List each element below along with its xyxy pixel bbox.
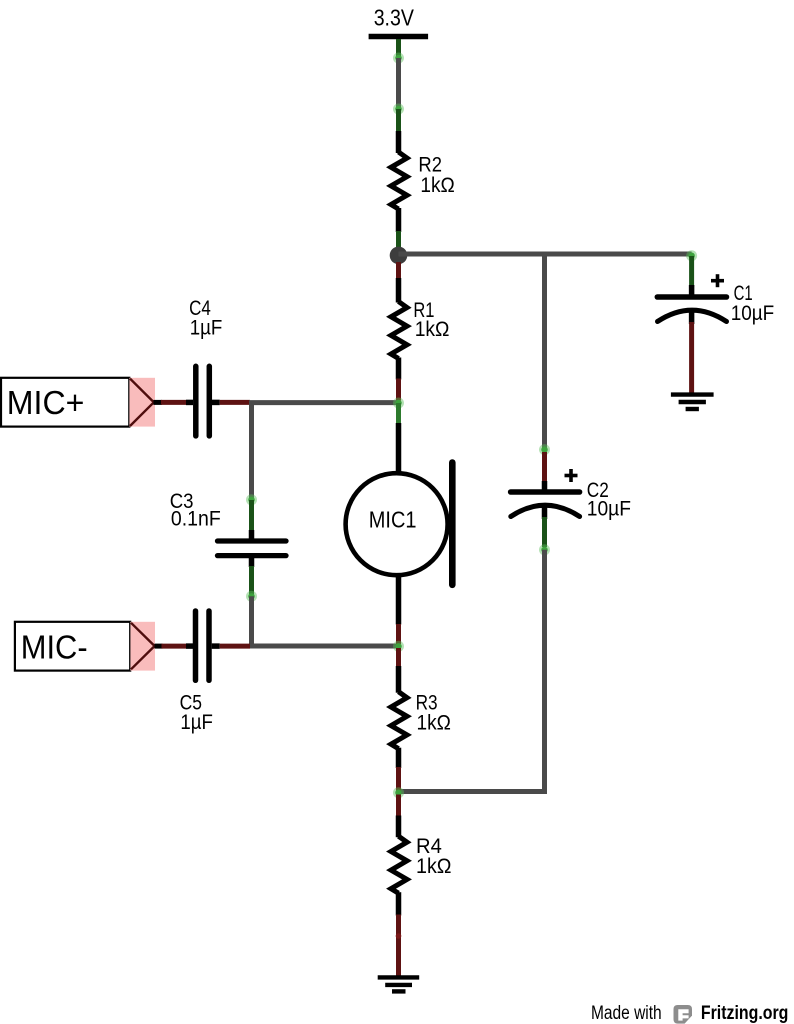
- ground symbol below R4: [378, 977, 420, 991]
- wire (gray) C3 bottom to MIC- corner: [249, 596, 254, 646]
- svg-text:1kΩ: 1kΩ: [420, 174, 454, 197]
- node dot (green) at C3 bottom: [246, 591, 257, 602]
- node dot (green) at C2 bottom: [539, 544, 550, 555]
- capacitor C1 10uF: [657, 274, 774, 325]
- wire (gray) MIC- corner to R3 top: [249, 644, 399, 649]
- capacitor C2 10uF: [511, 469, 631, 520]
- wire MIC+ to C4 (dark red): [161, 400, 186, 405]
- node dot (green) at R3 top junction: [393, 641, 404, 652]
- microphone MIC1: [346, 463, 453, 585]
- pin lead from 3.3V (dark green): [396, 39, 401, 58]
- svg-text:10µF: 10µF: [587, 497, 631, 520]
- svg-text:1kΩ: 1kΩ: [415, 318, 450, 341]
- lead (black) MIC1 bottom: [396, 575, 402, 625]
- svg-text:1kΩ: 1kΩ: [416, 855, 452, 878]
- lead at MIC- vertex (black): [155, 644, 163, 649]
- svg-text:1µF: 1µF: [190, 316, 223, 339]
- wire (gray) horizontal to R3/R4 node: [399, 789, 548, 794]
- resistor R4: [391, 816, 452, 916]
- svg-text:Made with: Made with: [591, 1003, 662, 1024]
- resistor R1: [391, 278, 450, 380]
- wire join dot (red) on R4 ground wire: [396, 933, 402, 939]
- pin lead C2 top (dark red): [542, 452, 547, 483]
- svg-text:1µF: 1µF: [180, 711, 213, 734]
- wire (dark red) node to R1: [396, 262, 401, 280]
- terminal MIC-: [15, 622, 155, 671]
- pin lead R3 top (dark red): [396, 648, 401, 667]
- pin lead R2 top (dark green): [396, 109, 401, 133]
- lead at MIC+ vertex (black): [154, 400, 163, 405]
- wire R4 to ground (dark red): [396, 915, 401, 980]
- svg-text:Fritzing.org: Fritzing.org: [701, 1003, 789, 1024]
- lead into C5 (black): [186, 643, 193, 649]
- resistor R2: [391, 131, 455, 232]
- wire (gray) C2 bottom to R3/R4 node: vertical: [542, 550, 547, 794]
- wire C4 to corner (dark red): [220, 400, 250, 405]
- wire (gray) from 3.3V to R2: [396, 58, 401, 109]
- wire (gray) C2 branch vertical from top wire: [542, 254, 547, 450]
- lead (black) into MIC1: [396, 423, 402, 474]
- node dot (green) at C1 wire corner: [686, 250, 697, 261]
- capacitor C5 1uF: [180, 611, 213, 734]
- svg-text:10µF: 10µF: [731, 302, 775, 325]
- lead out of C4 (black): [212, 400, 220, 406]
- wire (gray) MIC+ corner down to C3: [249, 403, 254, 500]
- pin lead MIC1 bottom (dark red): [396, 624, 401, 644]
- node dot (green) at C3 top: [246, 494, 257, 505]
- svg-text:1kΩ: 1kΩ: [417, 712, 451, 735]
- power symbol 3.3V: [369, 5, 429, 37]
- pin lead R1 to MIC1 (green): [396, 403, 401, 424]
- pin lead R4 top (dark red): [396, 795, 401, 817]
- capacitor C4 1uF: [189, 297, 222, 436]
- resistor R3: [391, 666, 451, 768]
- capacitor C3 0.1nF: [170, 490, 286, 567]
- svg-text:MIC1: MIC1: [369, 506, 417, 532]
- footer: Made with Fritzing.org: [591, 1003, 788, 1024]
- wire (gray) node to C1 branch: [399, 252, 692, 257]
- lead into C4 (black): [186, 400, 193, 406]
- wire C1 to ground (dark red): [689, 322, 694, 396]
- node dot (green) at R1 bottom junction: [393, 398, 404, 409]
- svg-text:0.1nF: 0.1nF: [171, 507, 221, 530]
- node dot (green) at R3/R4 junction: [393, 787, 404, 798]
- pin lead C1 top (dark green): [689, 256, 694, 287]
- ground symbol below C1: [671, 395, 714, 409]
- wire C5 to corner (dark red): [220, 644, 250, 649]
- pin lead R1 bottom (dark red): [396, 379, 401, 401]
- pin lead R3 bottom (dark red): [396, 767, 401, 791]
- lead out of C5 (black): [212, 643, 220, 649]
- node dot (green) at 3.3V wire top: [393, 53, 404, 64]
- svg-text:3.3V: 3.3V: [374, 5, 415, 31]
- pin lead C3 top (dark green): [249, 500, 254, 532]
- svg-text:R2: R2: [418, 154, 442, 177]
- node dot (green) at C2 top: [539, 444, 550, 455]
- wire (gray) MIC+ corner to R1 bottom: [249, 400, 399, 405]
- node dot (green) at R2 top: [393, 104, 404, 115]
- pin lead R2 bottom (dark green): [396, 231, 401, 249]
- pin lead C2 bottom (dark green): [542, 517, 547, 547]
- svg-text:MIC+: MIC+: [7, 384, 85, 421]
- pin lead C3 bottom (dark green): [249, 566, 254, 595]
- wire MIC- to C5 (dark red): [162, 644, 187, 649]
- terminal MIC+: [1, 378, 155, 427]
- junction node: [390, 247, 408, 265]
- svg-text:MIC-: MIC-: [21, 628, 88, 665]
